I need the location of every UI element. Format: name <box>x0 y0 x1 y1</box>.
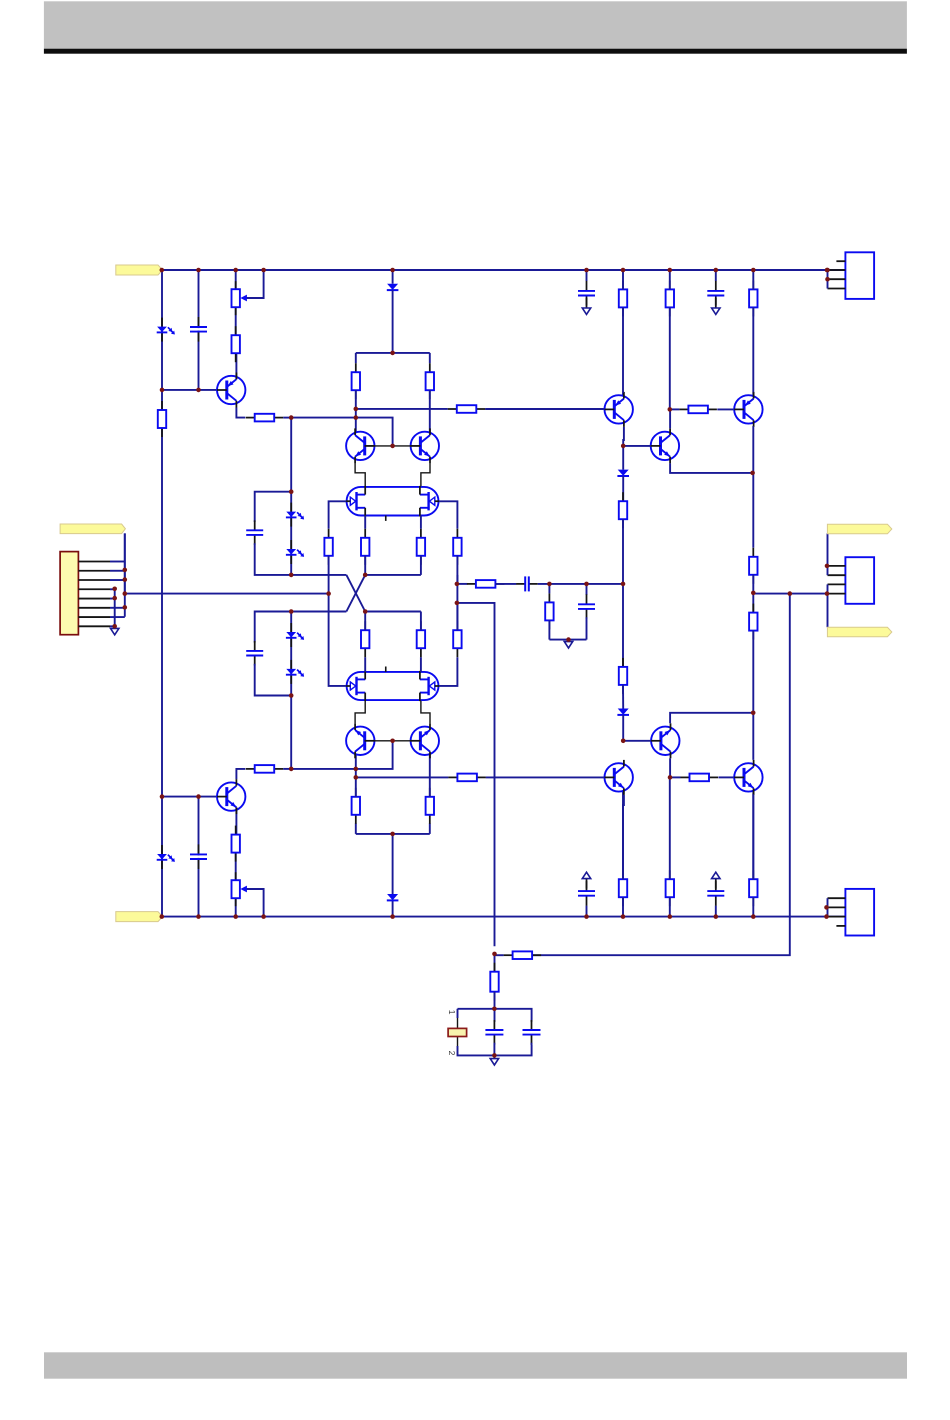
header gray banner <box>44 1 907 48</box>
resistor R28 <box>749 604 757 640</box>
wire top bias row <box>162 389 217 391</box>
wire left column bottom <box>161 797 163 917</box>
footer gray banner <box>44 1352 907 1378</box>
wire D3 to tail node <box>392 290 394 353</box>
wire C2 column <box>198 797 200 917</box>
header black rule <box>44 49 907 54</box>
wire Q9 collector <box>669 409 671 428</box>
wire J4 pins1-2 link <box>827 898 829 916</box>
LED D7 <box>286 623 304 647</box>
transistor Q12 (VAS bottom) <box>651 723 679 758</box>
wire comp column <box>456 575 458 630</box>
ground C10 <box>712 872 720 888</box>
pin 8 of J1 <box>78 625 110 627</box>
resistor R22 <box>666 280 674 316</box>
wire tail stub R <box>429 353 431 363</box>
diode D10 <box>617 709 629 715</box>
junction dots output <box>492 564 829 1058</box>
diode D4 <box>387 894 399 900</box>
pin 2 of J1 <box>78 570 110 572</box>
LED D8 <box>286 660 304 684</box>
pin of J2 <box>828 278 846 280</box>
wire LED block1 branch <box>290 492 292 575</box>
wire res-Q2 link <box>235 807 238 834</box>
wire R25 col <box>669 897 671 916</box>
pin of J3 <box>828 593 846 595</box>
wire X row upper <box>291 574 346 576</box>
wire R33 to Q8 <box>717 408 734 410</box>
wire J1 bus B <box>114 589 116 629</box>
resistor R16 <box>417 529 425 565</box>
output flag A <box>827 524 891 534</box>
wire V- bottom rail <box>162 916 845 918</box>
wire zobel mid column <box>494 1009 496 1022</box>
wire Q8 base row <box>670 408 680 410</box>
capacitor C3 <box>246 520 263 545</box>
wire C1 column <box>198 270 200 390</box>
transistor Q11 <box>734 760 762 795</box>
wire X diagonal 2 <box>346 575 365 612</box>
resistor R5 <box>246 765 284 773</box>
pin 5 of J1 <box>78 598 110 600</box>
ground at J1 <box>111 626 119 634</box>
connector J4 (bottom-right) <box>845 889 874 936</box>
wire U1 left gate <box>329 501 347 529</box>
connector J2 (top-right) <box>845 252 874 299</box>
resistor R31 <box>504 951 541 959</box>
transistor Q4 <box>411 428 439 463</box>
capacitor C8 <box>707 281 724 306</box>
wire C4 to bottom row <box>255 664 292 696</box>
wire output node link <box>752 575 754 613</box>
wire left column top <box>161 270 163 390</box>
wire Q2 pin to row <box>236 769 245 779</box>
wire tail row top <box>356 352 430 354</box>
resistor R14 <box>453 621 461 657</box>
LED D1 <box>157 318 175 342</box>
wire row 778 right <box>486 776 605 778</box>
svg-text:2: 2 <box>447 1051 457 1056</box>
ground zobel <box>490 1056 498 1065</box>
resistor R4 <box>246 414 284 422</box>
wire Q8 collector <box>752 391 754 393</box>
transistor Q1 <box>217 373 245 408</box>
resistor R33 <box>679 406 717 414</box>
wire C3 to bottom row <box>255 543 292 575</box>
wire R23 col <box>752 270 754 289</box>
resistor R3 <box>158 401 166 437</box>
wire Q9 base row <box>623 445 651 447</box>
wire X diagonal 1 <box>346 575 365 612</box>
ground C9 <box>582 872 590 888</box>
wire LED block1 top row <box>255 492 292 522</box>
wire Q5-Q6 base link <box>365 740 421 742</box>
wire R18 to X row <box>420 612 422 631</box>
resistor R30 <box>619 658 627 694</box>
resistor R6 <box>352 363 360 399</box>
capacitor C10 <box>707 881 724 906</box>
junction dots bottom rail <box>160 914 829 919</box>
wire R21 down <box>622 307 624 395</box>
LED D6 <box>286 540 304 564</box>
svg-text:1: 1 <box>447 1010 457 1015</box>
pin of J4 <box>828 916 846 918</box>
transistor Q9 (VAS top) <box>651 428 679 463</box>
LED D5 <box>286 503 304 527</box>
wire pot chain bottom <box>235 898 237 916</box>
power flag +V <box>116 265 163 275</box>
wire tail stub RB <box>429 823 431 834</box>
input flag <box>60 524 125 534</box>
pin of J2 <box>836 260 845 262</box>
wire fb junction <box>495 954 504 956</box>
wire R17 to X row <box>364 612 366 631</box>
wire R24 up <box>622 791 624 879</box>
wire R14 up <box>456 603 458 630</box>
transistor Q7 <box>605 392 633 427</box>
capacitor C6 <box>578 594 595 619</box>
wire Q10 collector <box>622 795 625 879</box>
pin 7 of J1 <box>78 616 110 618</box>
junction dots input stage <box>289 351 395 837</box>
wire pot chain top <box>235 270 237 289</box>
transistor Q10 <box>605 760 633 795</box>
wire LED block1 frame <box>290 418 292 492</box>
resistor R11 <box>448 774 486 782</box>
wire D4 to tail node bottom <box>392 834 394 894</box>
wire J1 bus A <box>124 533 126 616</box>
wire Rg down <box>548 620 550 639</box>
wire pot-res link top <box>235 307 237 335</box>
wire gnd row <box>549 639 586 641</box>
wire Q3-Q4 base link <box>365 445 421 447</box>
wire U2 right drain <box>420 657 422 672</box>
wire cap col T2 <box>715 270 717 281</box>
wire R23 down <box>752 307 754 395</box>
resistor R12 <box>324 529 332 565</box>
wire Q8 emitter col <box>752 427 754 548</box>
wire D9-R29 <box>622 476 624 501</box>
pin of J4 <box>828 897 846 899</box>
wire node B column <box>290 696 292 769</box>
wire Q12 collector corner <box>670 713 753 724</box>
wire comp row <box>457 583 468 585</box>
junction dots comp <box>455 582 626 642</box>
ground C7 <box>582 298 590 314</box>
wire J2 pins3-4 link <box>827 270 829 289</box>
wire Q6 emitter step <box>421 701 430 724</box>
wire R22 col <box>669 270 671 289</box>
capacitor C4 <box>246 641 263 666</box>
power flag -V <box>116 912 163 922</box>
wire bias node bottom <box>622 715 624 741</box>
wire bias node top <box>622 446 624 470</box>
resistor R21 <box>619 280 627 316</box>
pin of J4 <box>828 906 846 908</box>
wire cap col B1 <box>586 906 588 917</box>
wire R25 up <box>669 777 671 879</box>
wire Cg link <box>586 584 588 595</box>
resistor R17 <box>361 621 369 657</box>
wire R13 down <box>456 556 458 584</box>
capacitor C12 <box>523 1020 541 1045</box>
junction dots VAS <box>621 407 756 780</box>
junction dots top rail <box>160 268 830 273</box>
pin of J2 <box>828 288 846 290</box>
wire U2 left gate <box>329 594 347 686</box>
resistor R8 <box>352 788 360 824</box>
resistor R2 <box>232 826 240 862</box>
resistor R27 <box>749 548 757 584</box>
pin 3 of J1 <box>78 579 110 581</box>
wire R8 to Q5 <box>355 754 357 797</box>
wire fb resistor link <box>494 955 496 972</box>
transistor Q6 <box>411 723 439 758</box>
wire R30-D10 <box>622 685 624 709</box>
sub-circuit zobel network frame <box>458 1009 532 1019</box>
wire tail stub LB <box>355 823 357 834</box>
wire row 409 left <box>356 408 448 410</box>
resistor R34 <box>681 774 719 782</box>
wire Q7 emitter to bias node <box>622 427 625 446</box>
junction dots X block <box>289 489 368 697</box>
junction dots J1 <box>112 568 127 629</box>
wire R5 to node B <box>283 768 291 770</box>
wire cap col B2 <box>715 906 717 917</box>
wire R16 to X row <box>420 556 422 575</box>
resistor R10 <box>448 405 486 413</box>
wire C11 down <box>493 1043 495 1056</box>
transistor Q3 <box>346 428 374 463</box>
pin of J3 <box>828 574 846 576</box>
wire R22 down <box>669 307 671 409</box>
wire rail to D3 <box>392 270 394 284</box>
resistor R23 <box>749 280 757 316</box>
wire tail stub L <box>355 353 357 363</box>
wire bias mid <box>622 519 624 667</box>
resistor R32 <box>490 963 498 1001</box>
wire R6 to Q3 <box>355 390 357 432</box>
resistor R25 <box>666 870 674 906</box>
wire X row upper right <box>365 574 421 576</box>
wire pot-res link bottom <box>235 853 237 881</box>
wire X row lower <box>291 611 346 613</box>
wire U1 right drain <box>420 516 422 529</box>
resistor R9 <box>426 788 434 824</box>
wire cap col T1 <box>586 270 588 281</box>
capacitor C9 <box>578 881 595 906</box>
wire Q5 emitter step <box>355 701 365 724</box>
resistor R24 <box>619 870 627 906</box>
wire fb branch row <box>457 603 495 946</box>
resistor R20 <box>545 593 553 629</box>
wire zobel right cap up <box>531 1019 533 1022</box>
wire U2 left drain <box>364 657 366 672</box>
inductor/fuse F1 <box>457 1018 459 1028</box>
wire input flag drop <box>124 533 126 593</box>
potentiometer RV2 <box>232 872 264 916</box>
wire U1 left drain <box>364 516 366 529</box>
resistor R13 <box>453 529 461 565</box>
wire Q9 emitter corner <box>670 463 753 473</box>
capacitor C2 <box>190 844 207 869</box>
capacitor C1 <box>190 317 207 342</box>
wire input row <box>125 593 329 595</box>
wire R9 to Q6 <box>429 754 431 797</box>
wire Q11 collector <box>752 795 754 879</box>
transistor Q5 <box>346 723 374 758</box>
wire R15 to X row <box>364 556 366 575</box>
wire R4 to node A <box>283 417 291 419</box>
transistor Q8 <box>734 392 762 427</box>
ground comp network <box>564 640 572 648</box>
resistor R18 <box>417 621 425 657</box>
connector J1 (8-pin header) <box>60 552 78 635</box>
pin 4 of J1 <box>78 588 110 590</box>
wire J3 pins3-4 link to output flag <box>827 584 829 627</box>
wire U2 right gate <box>439 657 457 686</box>
wire Rg link <box>548 584 550 594</box>
resistor R7 <box>426 363 434 399</box>
wire row 778 left <box>356 776 449 778</box>
wire Q4 emitter step <box>421 463 430 486</box>
wire LED block2 top row <box>255 612 292 643</box>
wire tail row bottom <box>356 833 430 835</box>
wire X row lower right <box>365 611 421 613</box>
wire Q12 base row <box>623 740 651 742</box>
resistor R1 <box>232 326 240 362</box>
wire Q12 emitter <box>669 758 671 777</box>
pin of J4 <box>836 925 845 927</box>
diode D9 <box>617 470 629 476</box>
LED D2 <box>157 845 175 869</box>
dual JFET U1 <box>346 486 439 521</box>
resistor R15 <box>361 529 369 565</box>
wire Cg down <box>586 617 588 639</box>
wire Q3 emitter step <box>355 463 365 486</box>
wire R26 up <box>752 791 754 879</box>
resistor R26 <box>749 870 757 906</box>
wire R26 col <box>752 897 754 916</box>
wire J3 pins1-2 link <box>827 533 829 575</box>
wire R24 col <box>622 897 624 916</box>
wire C5 to bias node <box>538 583 623 585</box>
capacitor C7 <box>578 281 595 306</box>
wire output row <box>753 593 827 595</box>
capacitor C11 <box>485 1020 503 1045</box>
resistor R29 <box>619 492 627 528</box>
wire LED block2 branch <box>290 612 292 696</box>
capacitor C5 <box>516 576 538 591</box>
diode D3 <box>387 284 399 290</box>
wire R19-C5 <box>495 583 516 585</box>
pin 6 of J1 <box>78 607 110 609</box>
connector J3 (mid-right) <box>845 557 874 604</box>
ground C8 <box>712 298 720 314</box>
pin 1 of J1 <box>78 561 110 563</box>
wire Q11 base row <box>670 776 681 778</box>
pin of J3 <box>828 583 846 585</box>
resistor R19 <box>467 580 505 588</box>
wire row 417.6 <box>291 418 392 446</box>
wire Q7 collector <box>622 391 625 393</box>
wire R32 to zobel <box>494 992 496 1009</box>
wire bottom bias row <box>162 796 217 798</box>
wire C12 down <box>531 1043 533 1045</box>
transistor Q2 <box>217 779 245 814</box>
wire U1 right gate <box>439 501 457 529</box>
wire row 777.4 <box>291 741 392 769</box>
wire R21 col <box>622 270 624 289</box>
wire Q1 emitter to row <box>236 408 245 418</box>
wire V+ top rail <box>162 269 845 271</box>
output flag B <box>827 627 891 637</box>
junction dots bias rows <box>160 388 201 799</box>
wire R7 to Q4 <box>429 390 431 432</box>
wire output drop <box>532 594 790 956</box>
potentiometer RV1 <box>232 270 264 315</box>
wire res-Q1 link <box>235 353 238 379</box>
wire rail to D4 <box>392 900 394 916</box>
junction dots J2 J4 <box>824 268 830 910</box>
wire R28 down to Q11 <box>752 631 754 760</box>
pin of J2 <box>828 269 846 271</box>
wire R34 to Q11 <box>718 776 734 778</box>
wire R12 to input node <box>328 556 330 594</box>
wire row 409 right <box>485 408 604 410</box>
dual JFET U2 <box>346 667 439 702</box>
pin of J3 <box>828 565 846 567</box>
wire left column lower <box>161 390 163 797</box>
